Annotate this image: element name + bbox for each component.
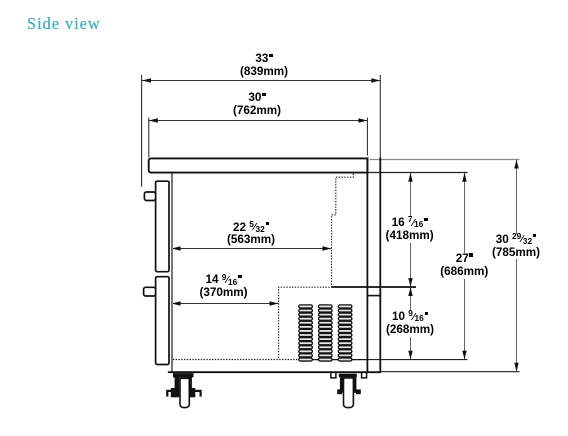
rear panel seam [367, 295, 382, 297]
reference line countertop level right [370, 159, 520, 161]
label 30in [232, 92, 282, 118]
arrow 30-29/32 down [514, 363, 518, 372]
label 27in [439, 253, 489, 279]
ext line 33 right [379, 75, 381, 158]
reference line counter underside right [368, 172, 468, 174]
arrow 27 down [462, 351, 466, 360]
body right edge [366, 157, 368, 372]
arrow 30 right [358, 118, 367, 122]
arrow 33 right [371, 78, 380, 82]
dim 33 line [142, 75, 381, 304]
dim 16-7/16 and 10-9/16 vertical line [410, 173, 412, 360]
dim 30 line [149, 120, 368, 122]
dim 27 vertical line [464, 173, 466, 360]
body bottom line [168, 371, 381, 373]
arrow 22 right [322, 246, 331, 250]
left caster [166, 373, 202, 407]
upper drawer panel [156, 181, 169, 272]
right caster [331, 373, 367, 408]
reference line interior bottom right [367, 359, 467, 361]
arrow 14 left [172, 301, 181, 305]
arrow 16 up [408, 173, 412, 182]
title: Side view [27, 14, 101, 34]
ext line 30 right [366, 118, 368, 156]
arrow 30-29/32 up [514, 160, 518, 169]
ext line 30 left [148, 118, 150, 158]
dim 30-29/32 vertical line [516, 160, 518, 372]
condenser coil fins [299, 305, 352, 361]
arrow 27 up [462, 173, 466, 182]
arrow 30 left [149, 118, 158, 122]
arrow 10 up [408, 287, 412, 296]
rear panel right edge [379, 157, 381, 372]
lower hinge bracket [144, 287, 156, 296]
arrow 10 down [408, 351, 412, 360]
arrows [142, 78, 519, 371]
ext line 33 left [141, 75, 143, 187]
label 10-9/16 [385, 311, 435, 337]
label 16-7/16 [385, 217, 435, 243]
arrow 22 left [172, 246, 181, 250]
arrow 33 left [142, 78, 151, 82]
reference line compartment top [332, 286, 417, 288]
dim 14-9/16 line [172, 303, 279, 305]
arrow 14 right [270, 301, 279, 305]
body left wall gray [171, 173, 173, 372]
label 30-29/32 [491, 234, 541, 260]
label 14-9/16 [198, 274, 248, 300]
lower drawer panel [156, 277, 169, 365]
interior dashed boundary [279, 174, 354, 360]
interior bottom dashed [173, 359, 299, 361]
coil base line [299, 359, 367, 361]
dim 22-5/32 line [172, 248, 332, 250]
counter top slab [149, 158, 368, 172]
upper hinge bracket [144, 192, 155, 201]
label 22-5/32 [226, 222, 276, 248]
reference line body bottom right [380, 371, 519, 373]
label 33in [239, 53, 289, 79]
arrow 16 down [408, 278, 412, 287]
